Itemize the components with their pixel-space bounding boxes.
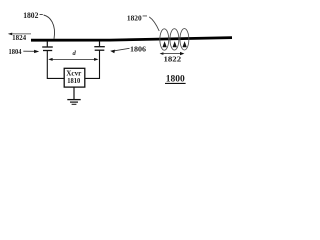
svg-text:1820: 1820 (127, 13, 142, 22)
svg-text:1804: 1804 (9, 48, 22, 56)
leader from 1802 to line (40, 15, 55, 39)
dimension 1822: double arrow under coil (160, 52, 185, 64)
label 1806 with left arrow (110, 46, 146, 54)
capacitor C2 (1806) (94, 41, 105, 50)
svg-text:1822: 1822 (164, 56, 182, 64)
label 1804 with right arrow (9, 48, 40, 56)
label 1824 with left arrow (8, 33, 31, 42)
box U1: Xcvr 1810 (64, 68, 85, 87)
svg-text:1800: 1800 (166, 74, 186, 84)
wire: main transmission line (bus) (31, 38, 232, 41)
wire from C2 down and into Xcvr box (85, 50, 99, 78)
capacitor C1 (1804) (42, 41, 53, 51)
wire from Xcvr box to ground (73, 88, 75, 100)
figure number 1800 (underlined) (165, 74, 186, 84)
coil winding arrowheads (162, 41, 186, 47)
leader from 1820 to coil (143, 16, 160, 31)
inductor coil 1820: three loops on the line (160, 29, 189, 51)
svg-text:1810: 1810 (67, 77, 80, 85)
wire from C1 down and into Xcvr box (47, 51, 64, 79)
ground symbol (67, 100, 80, 105)
dimension d: double arrow between capacitor wires (48, 50, 98, 61)
svg-text:1824: 1824 (12, 35, 27, 42)
svg-text:1806: 1806 (130, 46, 147, 54)
svg-text:d: d (73, 50, 77, 57)
svg-text:1802: 1802 (23, 11, 38, 20)
